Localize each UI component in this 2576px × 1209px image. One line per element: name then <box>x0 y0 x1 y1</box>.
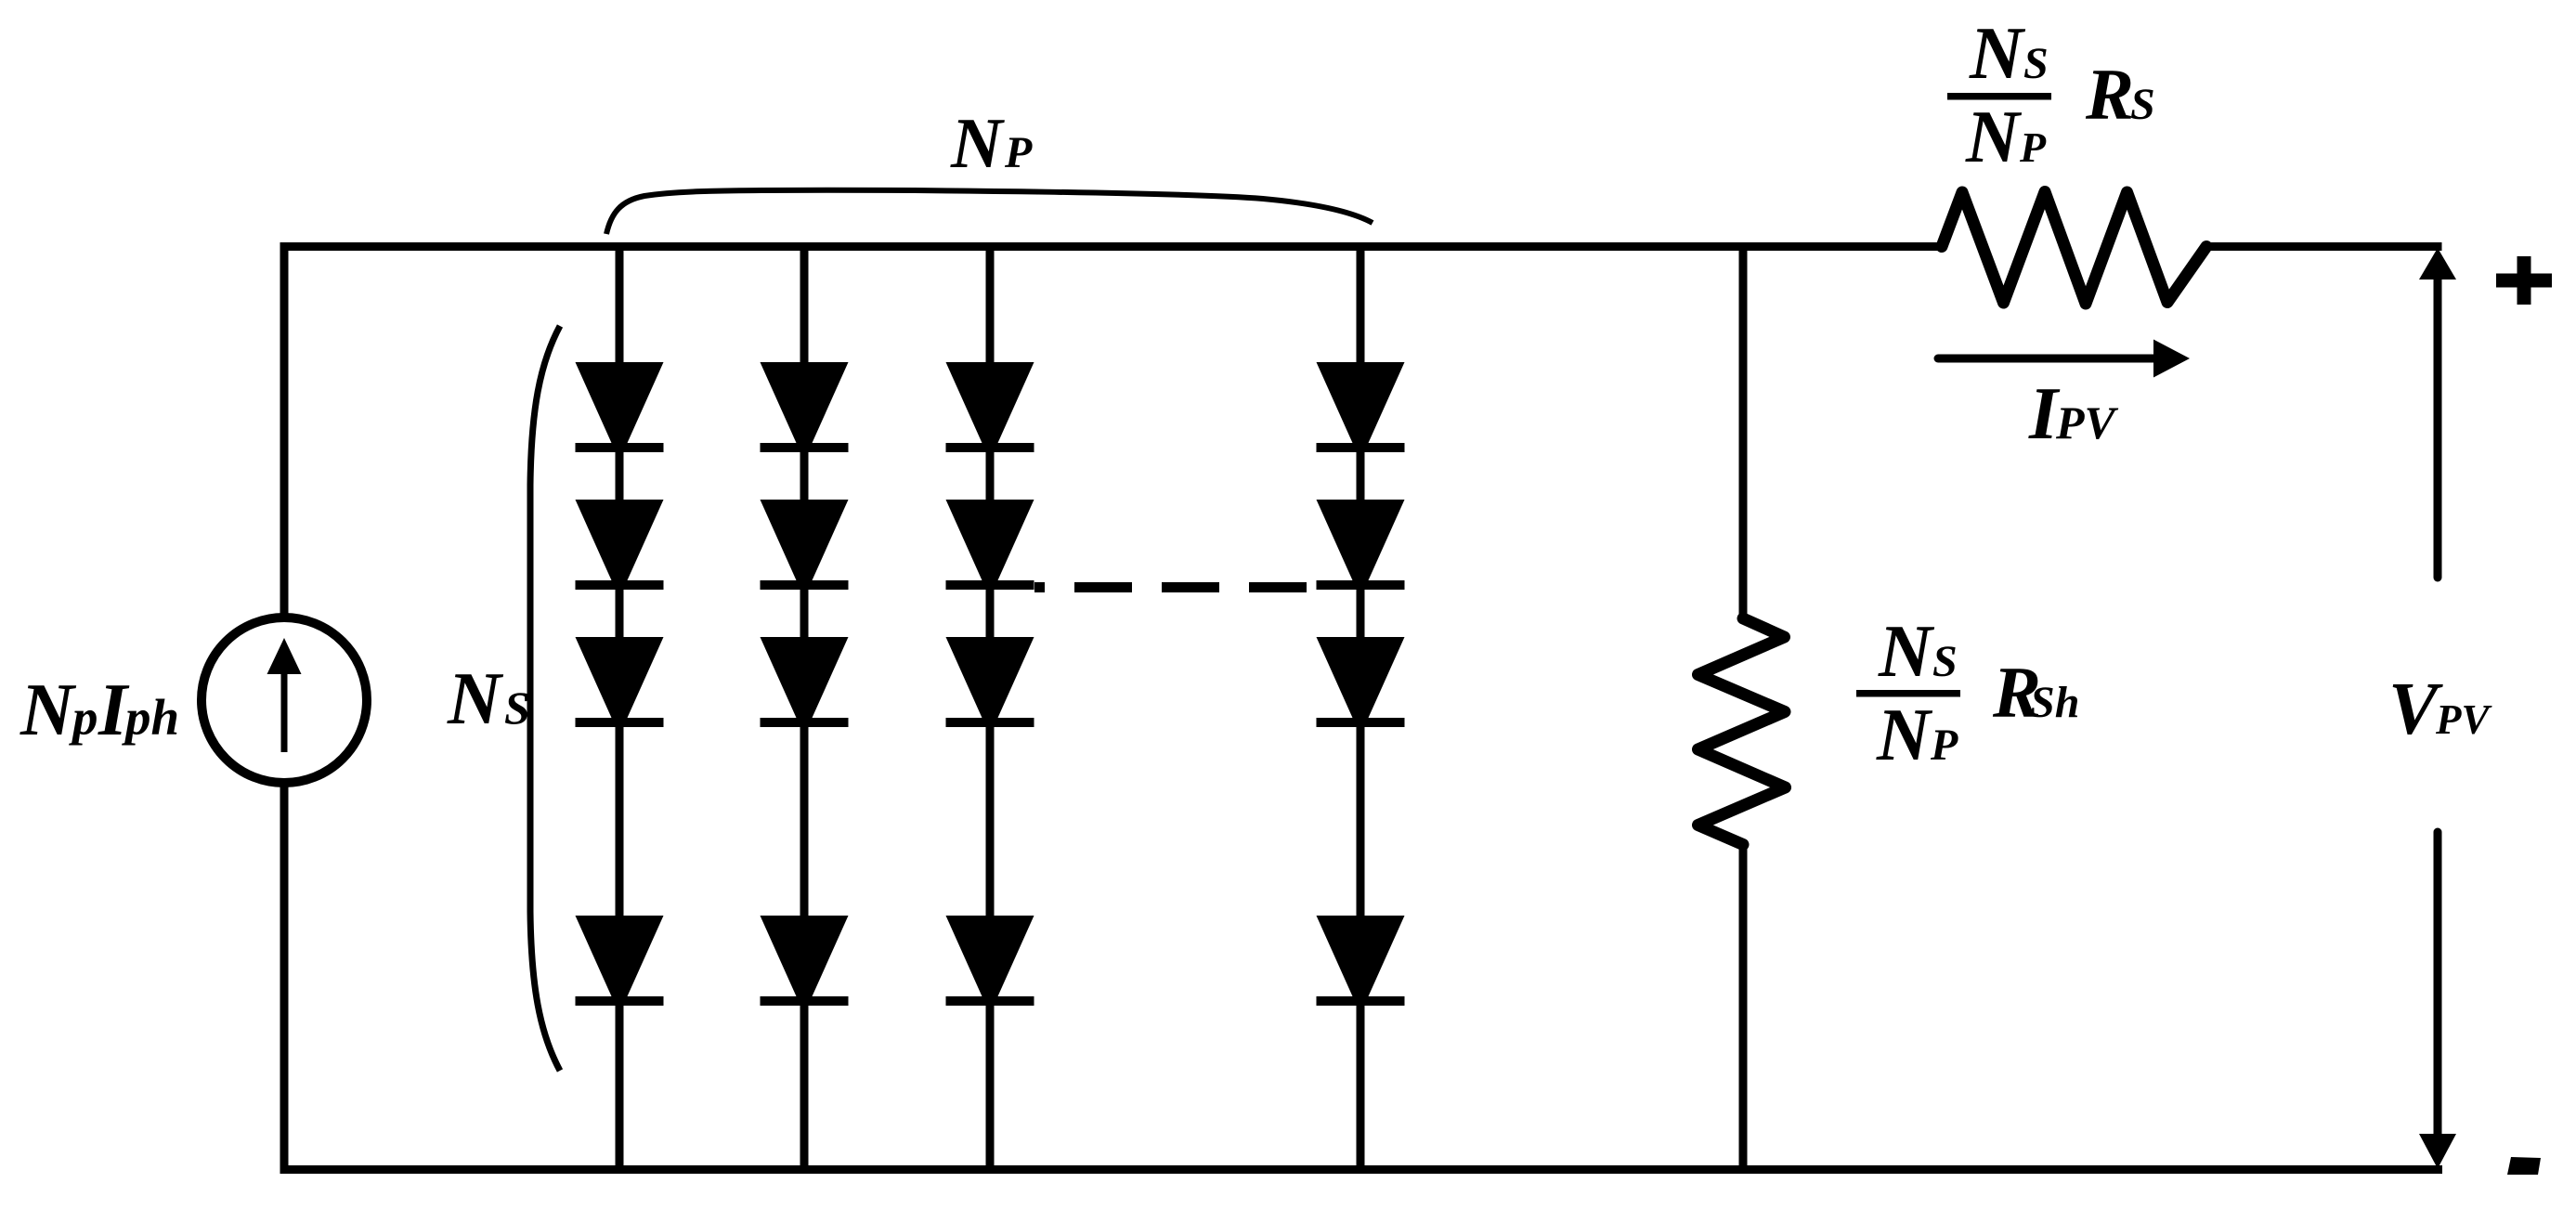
label Np (brace) <box>950 103 1033 183</box>
label NpIph <box>20 669 179 751</box>
diode D33 <box>946 637 1034 735</box>
arrow VPV upper <box>2419 248 2456 578</box>
svg-text:N: N <box>20 669 77 751</box>
diode D22 <box>761 500 849 598</box>
wire top rail right segment <box>2206 242 2442 251</box>
diode D42 <box>1317 500 1405 598</box>
svg-text:N: N <box>1965 97 2023 178</box>
diode D11 <box>576 362 664 461</box>
svg-text:P: P <box>1004 128 1033 177</box>
wire bottom rail <box>280 1165 2443 1174</box>
svg-text:R: R <box>2085 54 2134 135</box>
wire diode column 3 <box>986 242 995 1174</box>
plus terminal <box>2496 256 2552 305</box>
bracket Ns beside column 1 <box>530 326 560 1071</box>
svg-text:N: N <box>950 103 1005 183</box>
svg-text:S: S <box>1932 637 1958 686</box>
dashed wire between column 3 and column 4 <box>1034 582 1307 592</box>
diode D44 <box>1317 916 1405 1014</box>
label Ns/Np Rsh (shunt) <box>1856 611 2079 776</box>
svg-text:N: N <box>447 658 504 740</box>
diode D23 <box>761 637 849 735</box>
svg-text:N: N <box>1878 611 1935 693</box>
label Ns/Np Rs (series) <box>1947 13 2155 178</box>
current source NpIph <box>202 617 367 783</box>
arrow VPV lower <box>2419 832 2456 1169</box>
diode D12 <box>576 500 664 598</box>
wire left branch upper <box>280 242 289 618</box>
wire shunt branch lower <box>1739 842 1748 1174</box>
label IPV <box>2028 373 2119 455</box>
arrow IPV <box>1938 340 2190 378</box>
wire diode column 1 <box>616 242 624 1174</box>
diode D32 <box>946 500 1034 598</box>
resistor Ns/Np Rs (series) <box>1942 192 2206 305</box>
diode D34 <box>946 916 1034 1014</box>
diode D31 <box>946 362 1034 461</box>
svg-text:P: P <box>2019 123 2047 171</box>
svg-text:P: P <box>1930 721 1958 770</box>
svg-text:ph: ph <box>122 689 179 746</box>
resistor Ns/Np Rsh (shunt) <box>1698 618 1786 845</box>
diode D13 <box>576 637 664 735</box>
diodes columns (4 cols x 4 rows) <box>576 362 1405 1014</box>
wire diode column 2 <box>800 242 809 1174</box>
minus terminal <box>2507 1157 2541 1175</box>
svg-text:Sh: Sh <box>2030 678 2079 727</box>
svg-text:N: N <box>1969 13 2026 95</box>
svg-text:N: N <box>1876 695 1933 776</box>
wire diode column 4 <box>1357 242 1365 1174</box>
label VPV <box>2388 669 2492 750</box>
svg-text:S: S <box>2023 39 2049 88</box>
diode D24 <box>761 916 849 1014</box>
svg-text:PV: PV <box>2435 696 2492 743</box>
wire shunt branch upper <box>1739 242 1748 620</box>
svg-text:S: S <box>504 682 530 734</box>
diode D41 <box>1317 362 1405 461</box>
diode D21 <box>761 362 849 461</box>
brace Np over diode columns <box>606 190 1373 234</box>
svg-text:S: S <box>2130 80 2155 129</box>
svg-text:p: p <box>69 689 98 746</box>
svg-text:PV: PV <box>2055 396 2119 448</box>
wire top rail left segment <box>280 242 1943 251</box>
wire left branch lower <box>280 782 289 1174</box>
diode D14 <box>576 916 664 1014</box>
diode D43 <box>1317 637 1405 735</box>
label Ns (bracket) <box>447 658 530 740</box>
